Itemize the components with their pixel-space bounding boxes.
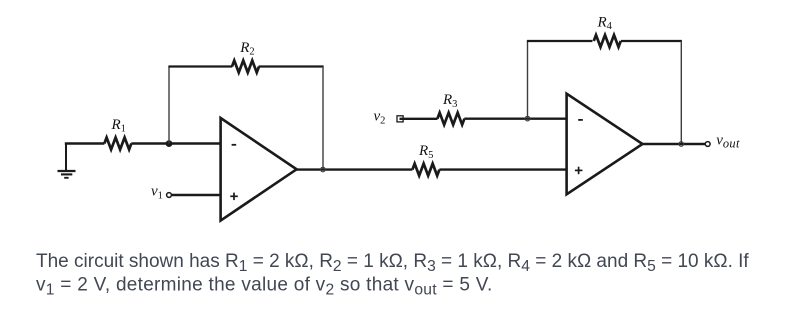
terminal v2 square [397, 116, 403, 122]
svg-text:v2: v2 [374, 108, 386, 126]
wire feedback2 left vertical [527, 41, 529, 119]
wire feedback2 top left [527, 40, 593, 42]
junction circle at U1 output [321, 167, 326, 172]
wire R1 to op-amp U1 inverting input [131, 142, 221, 144]
wire feedback2 right vertical [680, 41, 682, 144]
wire feedback1 left vertical [168, 67, 170, 144]
wire feedback1 top left [168, 65, 232, 67]
wire feedback1 right vertical [322, 67, 324, 170]
wire ground to R1 [65, 142, 105, 144]
svg-text:vout: vout [716, 133, 740, 151]
wire U1 output to R5 [296, 168, 412, 170]
op-amp U2 [567, 94, 643, 195]
wire feedback1 top right [259, 65, 324, 67]
svg-text:R3: R3 [442, 92, 457, 110]
terminal v1 circle [167, 193, 172, 198]
svg-text:R4: R4 [597, 14, 613, 32]
junction circle R3 node [525, 116, 530, 121]
svg-text:R1: R1 [111, 117, 126, 135]
wire R5 to op-amp U2 non-inverting input [439, 168, 567, 170]
U2 plus sign [575, 167, 583, 175]
resistor R3 [437, 113, 464, 125]
svg-text:The circuit shown has R1 = 2 k: The circuit shown has R1 = 2 kΩ, R2 = 1 … [36, 251, 749, 275]
U2 minus sign [578, 119, 583, 121]
wire R3 to op-amp U2 inverting input [464, 117, 567, 119]
svg-text:v1: v1 [151, 184, 163, 202]
U1 minus sign [232, 144, 237, 146]
wire U2 output to vout terminal [642, 143, 705, 145]
resistor R5 [412, 164, 439, 176]
op-amp U1 [221, 118, 297, 221]
svg-text:v1 = 2 V, determine the value: v1 = 2 V, determine the value of v2 so t… [36, 275, 493, 299]
wire v1 to op-amp U1 non-inverting input [172, 194, 221, 196]
wire feedback2 top right [621, 40, 682, 42]
ground [58, 144, 76, 178]
resistor R2 [232, 61, 259, 73]
terminal vout circle [705, 142, 710, 147]
svg-text:R5: R5 [418, 143, 433, 161]
resistor R4 [594, 35, 621, 47]
U1 plus sign [230, 193, 238, 201]
problem statement text [36, 251, 749, 299]
wire v2 to R3 [400, 118, 438, 120]
node junction dot [166, 140, 173, 147]
resistor R1 [104, 138, 131, 150]
junction circle at U2 output [679, 142, 684, 147]
svg-text:R2: R2 [239, 40, 254, 58]
